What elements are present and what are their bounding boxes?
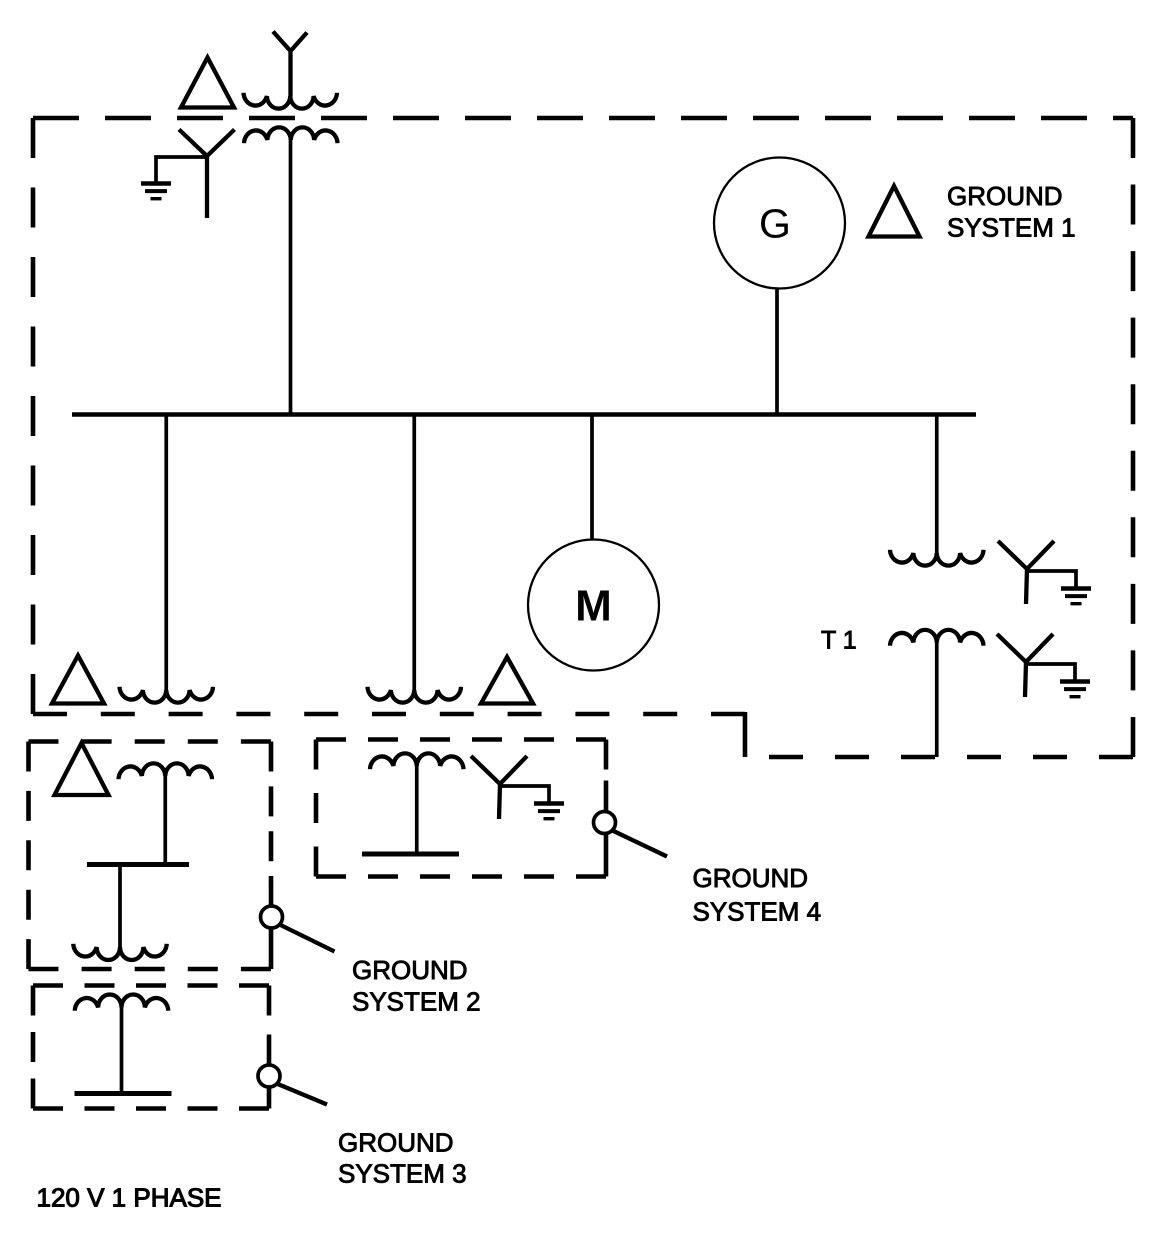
- wire T1 secondary down: [935, 643, 939, 758]
- TA ground symbol: [141, 181, 171, 186]
- GS1 boundary step: [743, 712, 748, 757]
- GS1 boundary bottom-left edge: [33, 712, 745, 717]
- feeder 2 primary winding: [368, 687, 462, 703]
- ground symbol T1 secondary: [1060, 679, 1090, 684]
- GS4 wire winding to bar: [415, 766, 419, 854]
- GS3 boundary right edge: [267, 986, 272, 1065]
- wire T1 to bus: [935, 415, 939, 554]
- ground wire T1 primary: [1027, 571, 1076, 587]
- GS2 boundary right edge: [269, 742, 274, 907]
- svg-text:GROUND: GROUND: [338, 1128, 454, 1158]
- GS4 boundary top edge: [316, 737, 606, 742]
- GS3 boundary bottom edge: [33, 1106, 269, 1111]
- svg-text:M: M: [575, 582, 612, 631]
- GS4 transformer secondary winding: [370, 753, 464, 769]
- wire motor to bus: [590, 415, 594, 541]
- GS2 wire bar to lower transformer: [118, 865, 122, 948]
- GS4 boundary bottom edge: [316, 874, 606, 879]
- svg-text:SYSTEM 4: SYSTEM 4: [693, 897, 822, 927]
- GS4 bonding switch: [594, 812, 616, 834]
- svg-text:SYSTEM 3: SYSTEM 3: [338, 1159, 467, 1189]
- transformer TB secondary winding: [244, 127, 338, 143]
- GS2 transformer secondary winding: [119, 763, 213, 779]
- transformer T1 secondary winding: [890, 630, 984, 646]
- GS3 transformer secondary winding: [75, 994, 169, 1010]
- svg-text:GROUND: GROUND: [352, 955, 468, 985]
- svg-text:SYSTEM 1: SYSTEM 1: [947, 213, 1076, 243]
- GS1 boundary bottom-right edge: [745, 755, 1133, 760]
- GS2 boundary top edge: [29, 739, 272, 744]
- feeder 2 delta symbol: [481, 657, 533, 704]
- GS2 boundary bottom edge: [29, 967, 272, 972]
- GS2 bonding switch: [261, 906, 283, 928]
- ground wire T1 secondary: [1026, 664, 1075, 680]
- transformer T1 primary winding: [890, 550, 984, 566]
- ground system 1 delta symbol: [869, 186, 920, 237]
- feeder 1 delta symbol: [52, 656, 104, 704]
- ground symbol T1 primary: [1061, 586, 1091, 591]
- transformer TB wye terminal: [273, 32, 307, 97]
- GS4 boundary right edge: [604, 740, 609, 811]
- GS4 boundary left edge: [314, 740, 319, 877]
- GS2 wire winding to panel bar: [163, 776, 167, 865]
- wye winding T1 secondary: [997, 634, 1053, 697]
- svg-text:GROUND: GROUND: [947, 181, 1063, 211]
- ground symbol GS4: [534, 801, 564, 806]
- svg-text:G: G: [759, 201, 791, 247]
- transformer TA delta winding: [181, 58, 234, 108]
- svg-text:SYSTEM 2: SYSTEM 2: [352, 987, 481, 1017]
- wire TB to bus: [289, 140, 293, 415]
- svg-text:GROUND: GROUND: [693, 863, 809, 893]
- GS3 panel bar: [75, 1091, 172, 1096]
- GS1 boundary top edge: [33, 116, 1133, 121]
- wye winding GS4: [471, 756, 527, 819]
- GS2 delta symbol: [55, 743, 109, 795]
- svg-text:120 V 1 PHASE: 120 V 1 PHASE: [37, 1183, 222, 1213]
- GS3 boundary top edge: [33, 983, 269, 988]
- svg-text:T 1: T 1: [821, 627, 857, 655]
- wire feeder 2: [412, 415, 416, 691]
- GS1 boundary right edge: [1131, 118, 1136, 757]
- GS1 boundary left edge: [31, 118, 36, 714]
- wye winding T1 primary: [998, 541, 1054, 604]
- transformer TB primary winding: [244, 93, 338, 109]
- GS3 boundary left edge: [31, 986, 36, 1109]
- transformer TA wye winding: [179, 130, 235, 219]
- GS3 wire winding to bar: [120, 1008, 124, 1094]
- GS4 panel bar: [362, 852, 459, 857]
- GS2 lower transformer primary winding: [73, 944, 167, 960]
- generator G circle: [714, 158, 845, 289]
- GS2 panel bar: [87, 862, 189, 867]
- feeder 1 primary winding: [120, 687, 214, 703]
- ground wire GS4: [500, 786, 549, 802]
- GS2 boundary left edge: [26, 742, 31, 970]
- motor M circle: [528, 540, 659, 671]
- wire feeder 1: [164, 415, 168, 691]
- main bus: [72, 412, 976, 416]
- TA neutral ground wire: [156, 157, 206, 182]
- GS3 bonding switch: [258, 1065, 280, 1087]
- wire generator to bus: [775, 289, 779, 415]
